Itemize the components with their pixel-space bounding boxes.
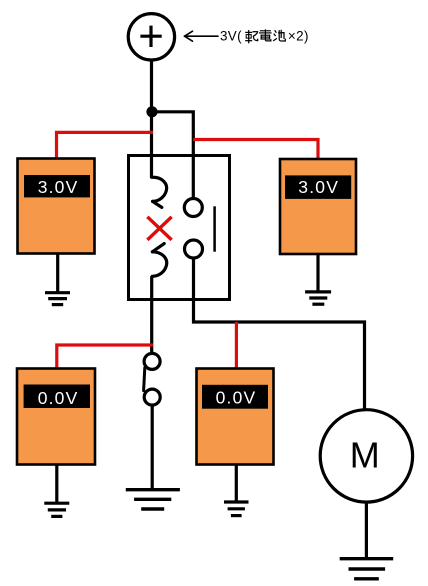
relay box K1 bbox=[129, 156, 230, 300]
svg-text:3.0V: 3.0V bbox=[298, 177, 339, 197]
svg-text:3.0V: 3.0V bbox=[38, 177, 79, 197]
wire red battery branch to voltmeter V1 bbox=[57, 132, 154, 159]
svg-text:0.0V: 0.0V bbox=[38, 388, 79, 408]
ground G4 bbox=[224, 502, 249, 516]
wire junction to relay coil bbox=[150, 112, 153, 178]
relay contact bottom circle bbox=[185, 240, 203, 258]
voltmeter V1 (3.0V) bbox=[18, 159, 95, 254]
switch S1 top circle bbox=[144, 353, 160, 369]
battery B1 (3V source) bbox=[128, 14, 174, 60]
wire V3 to ground bbox=[55, 465, 58, 504]
switch S1 bottom circle bbox=[144, 389, 160, 405]
svg-text:0.0V: 0.0V bbox=[216, 387, 257, 407]
wire switch to ground bbox=[151, 405, 154, 489]
ground G2 bbox=[305, 292, 331, 304]
ground G3 (large) bbox=[126, 490, 180, 509]
motor M1 bbox=[320, 410, 412, 502]
label "3V(乾電池×2)" bbox=[220, 28, 309, 43]
wire junction to relay contact bbox=[152, 112, 193, 199]
wire V4 to ground bbox=[235, 465, 238, 503]
svg-text:M: M bbox=[350, 434, 380, 475]
wire red battery branch to voltmeter V2 bbox=[193, 140, 318, 161]
de-energized mark (red cross) bbox=[149, 218, 171, 239]
svg-text:×2): ×2) bbox=[288, 28, 309, 43]
wire V1 to ground bbox=[56, 254, 59, 293]
relay coil L1 top turn bbox=[152, 177, 167, 201]
wire contact to motor bbox=[194, 258, 365, 409]
voltmeter V4 (0.0V) bbox=[197, 369, 274, 465]
wire motor to ground bbox=[365, 503, 368, 559]
kanji 池 bbox=[274, 30, 286, 41]
wire V2 to ground bbox=[316, 254, 319, 291]
wire coil to switch bbox=[150, 276, 153, 354]
kanji 乾 bbox=[246, 31, 258, 43]
voltmeter V3 (0.0V) bbox=[17, 369, 95, 465]
kanji 電 bbox=[260, 30, 271, 41]
relay armature bar bbox=[213, 206, 216, 251]
annotation arrow bbox=[185, 31, 219, 41]
ground G6 bbox=[340, 559, 394, 579]
voltmeter V2 (3.0V) bbox=[280, 159, 356, 254]
wire red branch to voltmeter V4 bbox=[235, 322, 238, 370]
svg-text:3V(: 3V( bbox=[220, 28, 242, 43]
wire red voltmeter V3 to switch bbox=[57, 345, 153, 370]
relay contact top circle bbox=[184, 199, 202, 217]
switch S1 lever bbox=[144, 368, 145, 391]
ground G5 bbox=[44, 503, 69, 516]
node junction bbox=[146, 106, 157, 117]
relay coil L1 bottom turn bbox=[152, 244, 164, 252]
wire battery to junction bbox=[150, 60, 153, 112]
ground G1 bbox=[45, 293, 70, 305]
